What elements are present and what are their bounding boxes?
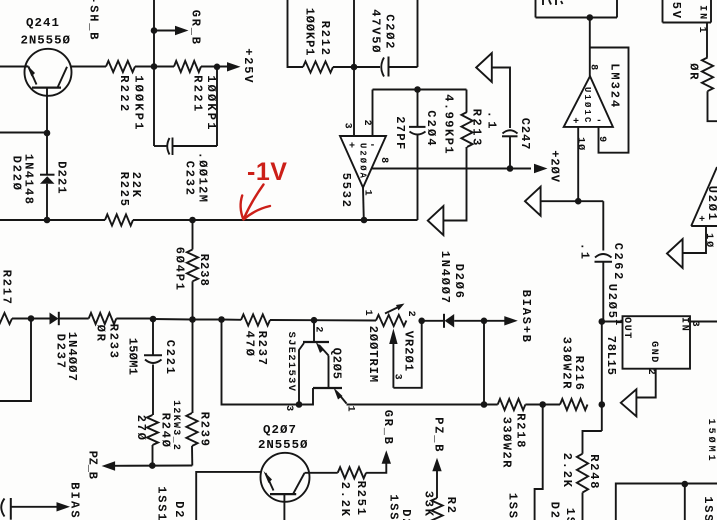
svg-text:22K: 22K [129,172,143,199]
node mid [539,401,546,408]
box LM324 feedback [590,48,629,153]
op-amp U200A [340,136,386,188]
wire Q207 emitter [283,494,285,520]
svg-text:-: - [596,116,603,127]
svg-text:C2Ø4: C2Ø4 [424,110,438,148]
node -1V / R238 [189,217,196,224]
svg-text:2: 2 [361,120,372,129]
svg-text:C2Ø2: C2Ø2 [383,14,397,50]
svg-text:+: + [349,142,356,153]
capacitor C232 [154,138,217,156]
node +25V [214,64,221,71]
offpage arrow pin10 [525,187,541,216]
svg-text:C221: C221 [163,340,177,376]
wire bias rail left [12,318,50,320]
capacitor C262 [595,254,613,322]
wire Q205 emitter line [347,404,498,406]
wire U200A pin2 up [372,90,374,137]
node Q205 base [311,317,318,324]
svg-text:1SS: 1SS [505,493,519,520]
svg-text:+: + [573,117,580,128]
node -1V / D221 [44,217,51,224]
svg-text:LM324: LM324 [607,63,621,109]
svg-text:PZ_B: PZ_B [85,451,99,479]
svg-text:R248: R248 [587,454,601,490]
svg-text:8: 8 [378,157,389,166]
svg-text:SJE2153V: SJE2153V [285,332,297,393]
svg-text:1ØØKP1: 1ØØKP1 [131,75,145,131]
node VR201/D206 [418,318,425,325]
svg-text:C232: C232 [182,161,196,197]
wire to C262 [602,201,604,250]
svg-text:PZ_B: PZ_B [431,417,445,453]
node R222/R221 [151,63,158,70]
resistor 0R [702,58,713,92]
svg-text:R221: R221 [191,75,205,113]
svg-text:2: 2 [645,369,656,378]
svg-text:5532: 5532 [339,173,353,209]
wire R218-R216 [525,404,560,406]
resistor R240 [147,415,158,445]
resistor R251 [338,467,366,478]
op-amp U201 partial [691,167,717,226]
resistor R217 [0,313,12,324]
svg-text:D2: D2 [172,501,186,519]
wire node stub left [0,132,47,134]
svg-text:R213: R213 [470,109,484,148]
wire D237 to R233 [59,318,89,320]
wire C202 up [417,0,419,67]
svg-text:3: 3 [391,374,402,383]
svg-text:.ØØ12M: .ØØ12M [195,152,209,204]
transistor Q207 [261,453,310,502]
wire pin10 down [577,127,579,201]
svg-text:33ØW2R: 33ØW2R [559,337,573,390]
top box label scraps [543,0,563,5]
wire R222 to R221 [135,66,174,68]
svg-text:27Ø: 27Ø [134,415,148,442]
wire R239 top [192,320,194,414]
regulator U205 78L15 box [623,316,691,369]
svg-text:15V: 15V [669,0,683,20]
svg-text:U2Ø5: U2Ø5 [605,284,619,320]
wire pin3 to T2 collector [299,388,313,405]
wire R237 to Q205 [270,319,314,321]
svg-text:IN: IN [697,5,708,21]
svg-text:OUT: OUT [621,317,632,340]
arrow GR_B bottom [382,450,391,464]
arrow PZ_B left [102,461,116,470]
svg-text:GR_B: GR_B [381,410,395,446]
svg-text:3: 3 [341,123,352,132]
wire C202 left up [353,0,355,67]
svg-text:C262: C262 [611,243,625,282]
svg-text:1: 1 [696,27,707,36]
svg-text:1: 1 [344,406,355,415]
wire R239 bottom [191,446,193,466]
op-amp U101C [564,76,613,127]
svg-text:ØR: ØR [686,63,700,81]
diode D206 [444,314,454,328]
node BIAS branch [481,318,488,325]
arrow PZ_B up [432,458,441,472]
svg-text:1ØØKP1: 1ØØKP1 [303,8,317,57]
svg-text:2.2K: 2.2K [560,453,574,489]
svg-text:D2: D2 [399,509,413,520]
svg-text:1Ø: 1Ø [575,137,587,151]
svg-text:Q241: Q241 [26,16,60,30]
svg-text:4.99KP1: 4.99KP1 [441,94,455,155]
svg-text:R237: R237 [255,331,269,367]
svg-text:.1: .1 [577,243,591,261]
wire U201 pin10 [681,226,706,253]
svg-text:8: 8 [587,64,598,73]
svg-text:78L15: 78L15 [604,336,618,376]
capacitor C221 [144,319,162,415]
offpage arrow U201 [667,239,683,268]
wire Q241 emitter down [46,88,48,135]
svg-text:6Ø4P1: 6Ø4P1 [172,247,186,292]
offpage arrow gnd [621,389,637,416]
wire Q241 base [0,66,29,68]
svg-text:.1: .1 [484,111,498,132]
svg-text:C247: C247 [518,118,532,151]
wire R233 to C221 [116,318,153,320]
offpage arrow -1V node [428,206,444,235]
wire R238 top [192,220,194,250]
node R216 right [599,401,606,408]
resistor R237 [241,314,270,325]
svg-text:R233: R233 [107,324,121,360]
wire bottom joining [113,465,192,467]
svg-text:GR_B: GR_B [189,10,203,46]
svg-text:D2Ø6: D2Ø6 [452,264,466,300]
capacitor C204 [409,90,426,221]
svg-text:1Ø: 1Ø [703,233,715,249]
svg-text:R216: R216 [572,356,586,392]
wire U205 gnd [637,369,656,398]
wire R240 bottom [152,445,154,466]
svg-text:1S: 1S [563,508,577,520]
resistor R216 [560,399,588,410]
svg-text:U1Ø1C: U1Ø1C [582,87,592,125]
svg-text:R212: R212 [318,21,332,57]
arrow GR_B [175,26,189,35]
wire R248 jog [583,431,602,454]
wire U200A pin3 [353,67,355,136]
wire rail C221-R238 [153,318,193,321]
wire GR_B arrow shaft [154,30,176,32]
diode D237 [50,312,59,325]
svg-text:1SS1: 1SS1 [701,496,715,520]
svg-text:1SS1: 1SS1 [386,494,400,520]
svg-text:R239: R239 [197,412,211,448]
resistor R218 [498,399,526,410]
box top right connector [662,0,664,23]
node bottom right [682,481,689,488]
arrow +20V [534,164,548,173]
resistor R238 [187,250,198,282]
svg-text:47Ø: 47Ø [243,331,257,358]
wire C232 right leg [216,67,218,146]
svg-text:R251: R251 [354,481,368,517]
node R238 bottom [189,316,196,323]
resistor R225 [105,214,133,225]
wire PZ_B shaft [436,470,438,498]
wire C247 top [492,68,510,129]
wire R212 left [288,0,304,67]
wire fb top [373,89,467,91]
svg-text:U2Ø1: U2Ø1 [705,186,717,222]
wire BIAS branch down [483,321,485,405]
svg-text:1N4ØØ7: 1N4ØØ7 [65,332,79,382]
wire Q205 collector loop [222,320,300,405]
offpage arrow C247 [476,53,492,82]
wire U200A out [362,188,365,221]
wire C262 to R216 [601,322,603,432]
wire 0R bottom [708,91,717,121]
svg-text:U2ØØA: U2ØØA [358,143,368,180]
svg-text:R218: R218 [513,413,527,449]
wire bias arrow [11,506,57,508]
svg-text:33ØW2R: 33ØW2R [499,417,513,469]
arrow BIAS [57,502,71,511]
svg-text:+25V: +25V [241,48,255,84]
node R218 left [481,401,488,408]
svg-text:33K: 33K [421,491,435,518]
resistor R248 [577,454,588,493]
node GR_B top [151,27,158,34]
svg-text:VR2Ø1: VR2Ø1 [401,331,415,373]
wire U205 out [602,321,623,323]
node C247 bottom [507,165,514,172]
svg-text:BIAS: BIAS [68,482,82,520]
svg-text:D2: D2 [547,502,561,520]
svg-text:BIAS+B: BIAS+B [519,290,533,344]
svg-text:2N555Ø: 2N555Ø [21,34,71,48]
wire R212 to C202 [333,66,380,68]
svg-text:Q2Ø5: Q2Ø5 [329,348,343,380]
capacitor C202 [381,57,417,77]
svg-text:1: 1 [362,310,373,319]
svg-text:R2: R2 [444,497,458,515]
node rail/branch [28,315,35,322]
wire bottom right down [684,484,686,520]
resistor R213 [444,90,473,221]
node Q205 pin3 [296,401,303,408]
svg-text:R225: R225 [117,172,131,208]
wire -1V rail mid [133,219,418,221]
transistor Q205 SJE2153V [299,320,347,404]
svg-text:ØR: ØR [94,325,108,343]
svg-text:15ØM1: 15ØM1 [705,419,717,464]
svg-text:2.2K: 2.2K [338,482,352,518]
wire Q241 collector to R222 [72,66,107,68]
svg-text:D22Ø: D22Ø [9,156,23,192]
wire R238 bottom [192,281,194,319]
svg-text:1SS1: 1SS1 [154,486,168,520]
node Q205 collector branch [218,316,225,323]
svg-text:2ØØTRIM: 2ØØTRIM [366,326,380,383]
wire Q207 collector [305,472,338,474]
node C202 left [351,64,358,71]
wire D206 to BIAS [454,320,505,322]
svg-text:9: 9 [596,136,607,145]
svg-text:GND: GND [648,341,659,364]
box top middle connector [535,0,537,18]
svg-text:2: 2 [405,311,416,320]
node U205 out [599,318,606,325]
svg-text:12KW3_2: 12KW3_2 [170,400,181,451]
svg-text:IN: IN [679,317,690,332]
node pin10 [575,198,582,205]
wire -1V rail [0,219,105,221]
arrow BIAS+B [504,316,518,325]
wire rail R238-Q205box [193,319,222,321]
node R240 bottom [149,462,156,469]
svg-text:15ØM1: 15ØM1 [125,338,139,376]
svg-text:-SH_B: -SH_B [86,0,100,41]
node C221 top [150,316,157,323]
wire branch down-left [0,319,31,402]
svg-text:+2ØV: +2ØV [547,150,561,183]
resistor R212 [303,61,333,72]
svg-text:-1V: -1V [247,158,287,186]
wire rail to R237 [222,319,242,321]
resistor R233 [89,313,117,324]
trimmer VR201 [376,304,422,388]
svg-text:2N555Ø: 2N555Ø [258,438,308,452]
node Q241 emitter [44,130,51,137]
annotation red arrow [241,185,270,220]
svg-text:D221: D221 [54,161,68,195]
svg-text:Q2Ø7: Q2Ø7 [263,423,297,437]
svg-text:R217: R217 [0,270,13,306]
wire U205 in [690,321,717,323]
diode D221 [40,135,55,220]
wire rail Q205-VR201 [314,319,376,321]
svg-text:R238: R238 [197,254,211,287]
node -1V / U200A out [361,217,368,224]
svg-text:47V5Ø: 47V5Ø [368,9,382,54]
wire pin8 up [589,18,591,77]
arrow +25V [227,62,241,71]
svg-text:27PF: 27PF [393,116,407,150]
resistor R222 [106,61,135,72]
wire VR201 to D206 [422,320,444,322]
wire R221 to +25V [201,66,228,68]
capacitor bias corner [1,498,11,520]
svg-text:1N4ØØ7: 1N4ØØ7 [438,251,452,305]
resistor R2xx partial [431,498,442,520]
svg-text:+: + [699,215,706,226]
transistor Q241 [25,49,72,96]
node top box [587,14,594,21]
wire R251 to GR_B [366,462,386,473]
svg-text:3: 3 [283,405,294,414]
wire pin8 supply [371,168,531,170]
svg-text:-: - [370,141,377,152]
node fb/C204 [414,86,421,93]
wire Q207 base line [196,472,261,520]
capacitor C247 [502,130,518,168]
svg-text:R222: R222 [117,75,131,113]
resistor R221 [174,61,201,72]
svg-text:2: 2 [312,326,323,335]
wire 0R top [706,23,708,58]
wire pin10 node [541,200,604,202]
wire GR_B vertical [153,0,155,146]
wire R248 bottom [582,493,584,520]
resistor R239 [186,413,197,446]
wire mid branch down [535,405,543,520]
box bottom right [616,484,717,520]
